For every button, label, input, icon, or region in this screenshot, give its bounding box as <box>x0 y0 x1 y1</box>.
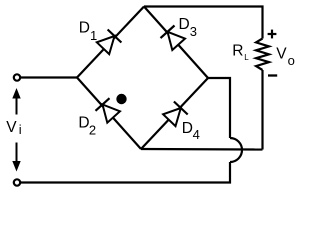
minus sign <box>268 74 277 76</box>
diode D1 <box>97 30 122 55</box>
wire: top node to load branch top <box>144 7 263 39</box>
wire: load branch bottom lead <box>261 70 263 150</box>
diode D3 <box>161 26 186 51</box>
plus sign <box>268 30 277 39</box>
label Vo <box>276 45 295 68</box>
svg-text:o: o <box>288 53 295 68</box>
label D3 <box>179 16 197 39</box>
svg-text:D: D <box>79 20 90 37</box>
wire: right node stub <box>208 78 230 138</box>
Vi source down arrow <box>12 143 20 172</box>
svg-text:L: L <box>244 53 249 62</box>
svg-text:D: D <box>182 120 193 137</box>
wire: vertical below hop, corner to bottom rail <box>21 162 230 183</box>
svg-text:D: D <box>179 16 190 33</box>
svg-text:V: V <box>276 45 287 62</box>
svg-text:R: R <box>232 42 243 59</box>
wire: D3 edge (top node to right node) <box>144 7 208 79</box>
svg-text:2: 2 <box>89 122 96 137</box>
label Vi <box>6 119 21 137</box>
diode D2 <box>96 98 121 123</box>
wire: D2 edge (left node to bottom node) <box>77 78 141 150</box>
svg-text:i: i <box>19 122 22 137</box>
wire: D4 edge (bottom node to right node) <box>141 78 208 149</box>
svg-text:1: 1 <box>90 28 97 43</box>
wire: top-left terminal to left node <box>21 76 78 78</box>
label D1 <box>79 20 98 43</box>
wire hop: vertical jumps over horizontal <box>230 138 242 162</box>
svg-text:V: V <box>6 119 17 136</box>
label D4 <box>182 120 200 142</box>
junction dot <box>116 94 126 104</box>
svg-text:3: 3 <box>190 24 197 39</box>
Vi source up arrow <box>12 88 20 115</box>
wire: bottom node to load bottom (passes under hop) <box>141 148 263 151</box>
input terminal (top, open circle) <box>14 74 20 80</box>
svg-text:4: 4 <box>193 127 200 142</box>
resistor R_L zigzag <box>256 39 269 71</box>
input terminal (bottom, open circle) <box>14 179 20 185</box>
label D2 <box>78 115 96 138</box>
wire: D1 edge (left node to top node) <box>77 7 144 78</box>
diode D4 <box>163 102 188 127</box>
label RL <box>232 42 249 62</box>
